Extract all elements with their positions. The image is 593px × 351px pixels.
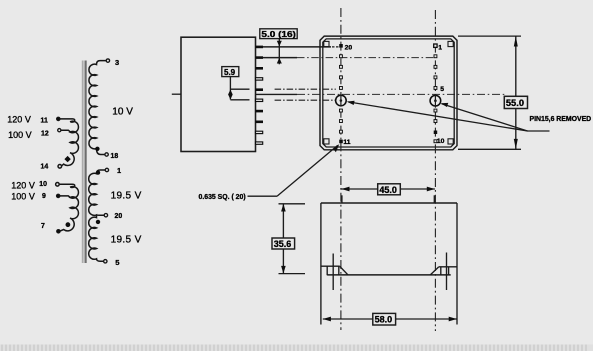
winding P1 primary 120V/100V (pins 11,12,14)	[60, 119, 78, 166]
side view pin row 3 (filled)	[256, 67, 264, 70]
svg-text:PIN15,6 REMOVED: PIN15,6 REMOVED	[530, 116, 592, 123]
corner post bottom-right	[448, 139, 453, 144]
svg-text:12: 12	[41, 131, 49, 138]
pin 7 terminal	[57, 229, 61, 233]
note leader tail	[528, 130, 550, 132]
corner post bottom-left	[324, 139, 329, 144]
svg-text:11: 11	[41, 117, 48, 124]
winding W3 secondary 19.5V (pins 20-5)	[89, 215, 104, 261]
pin 10 (top view)	[434, 140, 437, 143]
svg-text:120 V: 120 V	[7, 114, 31, 124]
hole pin 6 removed	[430, 95, 441, 106]
pin 1 (top view)	[434, 44, 437, 47]
svg-text:35.6: 35.6	[274, 239, 292, 249]
pin row line y=46.9 to top view	[263, 46, 331, 48]
svg-text:11: 11	[343, 139, 350, 146]
winding P2 primary 120V/100V (pins 10,9,7)	[59, 184, 78, 231]
polarity dot winding W3	[96, 220, 100, 224]
side view pin row 7 (filled)	[256, 110, 264, 113]
corner post top-right	[448, 41, 453, 46]
svg-text:1: 1	[438, 44, 442, 51]
side view pin row 2 (filled)	[256, 56, 264, 59]
left foot lead edges	[327, 266, 339, 275]
pin 18 terminal	[105, 153, 108, 156]
pin 20 terminal	[104, 214, 107, 217]
svg-text:9: 9	[42, 193, 46, 200]
pin 10 terminal	[56, 183, 60, 187]
pin 14 terminal	[58, 165, 62, 169]
centerline stub left of side view	[172, 93, 181, 95]
dimension 55.0 top extension line	[458, 35, 521, 37]
top view inner outline	[323, 39, 454, 147]
pin 3 (top view)	[434, 65, 437, 68]
leader to hole 6	[442, 104, 528, 131]
side view pin row 6 (open)	[256, 99, 263, 101]
svg-text:45.0: 45.0	[379, 185, 397, 195]
front view left edge + 58.0 extension	[320, 203, 322, 325]
note leader horizontal	[248, 195, 278, 197]
winding W2 secondary 19.5V (pins 1-20)	[89, 170, 105, 215]
svg-text:7: 7	[41, 223, 45, 230]
row line y=100.2 (dashed) to left hole	[275, 99, 336, 101]
svg-text:0.635 SQ. ( 20): 0.635 SQ. ( 20)	[199, 194, 246, 201]
pin 20 (filled square)	[339, 44, 343, 48]
svg-text:20: 20	[115, 213, 123, 220]
pin 12 tap wire	[61, 130, 70, 132]
right foot lead edges	[441, 267, 449, 275]
pin 3 terminal	[106, 59, 109, 62]
row line y=89.2 (dashed) to top view	[275, 88, 336, 90]
dimension 35.6 box	[272, 238, 295, 249]
dimension 5.0 (16) top arrow	[277, 41, 282, 47]
side view pin row 1 (filled)	[256, 46, 264, 49]
svg-text:5.9: 5.9	[224, 68, 236, 77]
side view pin row 9 (open)	[256, 131, 263, 133]
pin 7 (top view)	[434, 109, 437, 112]
centerline right pin column (vertical dash-dot x=435.4)	[434, 10, 436, 331]
pin 16	[340, 87, 343, 90]
pin 9 terminal	[56, 194, 60, 198]
svg-text:18: 18	[111, 153, 119, 160]
dimension 35.6 extension lines	[279, 203, 306, 205]
dimension 45.0 extension stubs	[341, 195, 343, 202]
dimension 5.0 (16) bottom arrow	[277, 58, 282, 64]
pin 4	[434, 76, 437, 79]
pin 1 terminal	[105, 168, 108, 171]
svg-text:10: 10	[39, 181, 47, 188]
hole pin 15 removed	[336, 95, 347, 106]
pin 12 (top view)	[340, 130, 343, 133]
front view body outline	[321, 202, 457, 204]
side view pin row 8 (filled)	[256, 121, 264, 124]
polarity dot winding W2	[96, 170, 100, 174]
dimension 55.0 bottom extension line	[458, 148, 521, 150]
svg-text:10: 10	[437, 138, 445, 145]
pin 9 tap wire	[60, 196, 70, 198]
dimension 5.9 leader line	[229, 77, 231, 100]
dimension 5.9 box	[222, 67, 239, 77]
corner post top-left	[324, 41, 329, 46]
svg-text:3: 3	[115, 58, 119, 67]
left chamfer	[340, 266, 348, 274]
pin 11 (top view, filled)	[339, 140, 343, 144]
pin 11 terminal	[56, 117, 60, 121]
centerline left pin column (vertical dash-dot x=340.9)	[340, 8, 342, 330]
top view outer outline (chamfered corners)	[320, 36, 457, 150]
svg-text:19.5 V: 19.5 V	[111, 191, 142, 202]
polarity dot winding P2	[66, 222, 71, 227]
leader to hole 15	[348, 102, 527, 131]
pin 18 (top view)	[340, 65, 343, 68]
row line y=94.4 (dash-dot) across to 55.0 area	[256, 93, 298, 95]
leader to pin 11	[277, 145, 338, 196]
dimension 45.0 line with arrows	[341, 188, 435, 190]
dimension 5.0 (16) box	[260, 29, 297, 39]
svg-text:14: 14	[41, 164, 49, 171]
pin 2	[434, 55, 437, 58]
svg-text:58.0: 58.0	[375, 315, 393, 325]
left lead front line	[332, 254, 334, 291]
pin 8	[434, 120, 437, 123]
polarity diamond winding P1	[64, 156, 70, 162]
hole 15 centerline segment	[340, 95, 342, 106]
dimension 58.0 line with arrows	[323, 318, 457, 320]
svg-text:19.5 V: 19.5 V	[111, 234, 142, 245]
front view right edge + 58.0 extension	[456, 203, 458, 325]
svg-text:120 V: 120 V	[11, 180, 35, 190]
right chamfer	[430, 267, 438, 275]
svg-text:100 V: 100 V	[8, 130, 32, 140]
right lead front line	[446, 253, 448, 291]
svg-text:1: 1	[117, 166, 121, 175]
svg-text:5.0 (16): 5.0 (16)	[261, 30, 296, 39]
pin 13	[340, 120, 343, 123]
svg-text:10 V: 10 V	[112, 106, 133, 117]
dimension 58.0 box	[373, 313, 396, 325]
svg-text:5: 5	[440, 86, 444, 93]
left foot shelf	[321, 265, 340, 267]
svg-text:55.0: 55.0	[506, 98, 524, 108]
dimension 55.0 line with arrows	[515, 36, 517, 149]
dimension 5.9 lower reference line	[230, 99, 249, 101]
side view body outline	[181, 37, 256, 151]
winding W1 secondary 10V (pins 3-18)	[89, 61, 106, 155]
right foot shelf	[439, 266, 457, 268]
pin 5 (top view)	[434, 87, 437, 90]
dimension 5.9 double arrow	[228, 90, 233, 100]
dimension 55.0 box	[504, 96, 527, 108]
pin 19	[340, 55, 343, 58]
side view pin row 10 (open)	[256, 142, 263, 144]
hole 6 center dot	[434, 99, 437, 102]
side view pin row 5 (filled)	[256, 88, 264, 91]
bottom face line	[327, 274, 451, 276]
pin 9 (top view, filled)	[434, 131, 438, 135]
dimension 5.0 (16) leader line	[278, 39, 280, 65]
hole 15 center dot	[340, 99, 343, 102]
pin 17	[340, 76, 343, 79]
pin 12 terminal	[58, 129, 61, 132]
pin row line y=57.6 to top view (dash-dot)	[263, 57, 297, 59]
dimension 45.0 box	[378, 184, 401, 195]
svg-text:20: 20	[345, 44, 353, 51]
dimension 35.6 line with arrows	[282, 204, 284, 274]
core	[82, 61, 87, 264]
pin 14 (top view)	[340, 109, 343, 112]
pin 5 terminal	[104, 260, 107, 263]
svg-text:100 V: 100 V	[11, 192, 35, 202]
hole 6 centerline segment	[434, 95, 436, 106]
polarity dot winding W1	[95, 147, 99, 151]
side view pin row 4 (open)	[256, 78, 263, 80]
dimension 5.9 upper reference line	[230, 88, 249, 90]
